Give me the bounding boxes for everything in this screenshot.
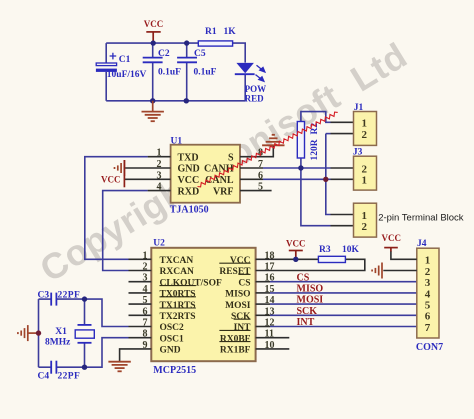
- junction CANH/120R: [298, 165, 303, 170]
- ground symbol U1 pin8 (inverted): [262, 135, 284, 146]
- svg-text:U1: U1: [171, 136, 183, 146]
- svg-text:MOSI: MOSI: [297, 295, 324, 306]
- capacitor C4: [51, 361, 56, 374]
- svg-text:22PF: 22PF: [58, 372, 81, 382]
- junction C5 bottom: [184, 98, 189, 103]
- svg-text:C5: C5: [194, 49, 206, 59]
- wire C1 top: [105, 43, 107, 63]
- U2 pin 12 stub: [256, 326, 270, 328]
- junction C3/X1: [82, 296, 87, 301]
- svg-text:R1: R1: [205, 27, 217, 37]
- wire C2 top stub: [152, 43, 154, 57]
- svg-text:SCK: SCK: [297, 306, 318, 317]
- svg-text:RESET: RESET: [219, 267, 251, 277]
- wire 120R top to J1 pin1: [301, 112, 331, 123]
- svg-text:10K: 10K: [342, 245, 360, 255]
- junction rail/ground: [36, 330, 41, 335]
- svg-text:U2: U2: [153, 238, 165, 248]
- svg-text:4: 4: [425, 288, 431, 300]
- svg-text:C4: C4: [38, 372, 50, 382]
- svg-text:R3: R3: [319, 245, 331, 255]
- svg-text:7: 7: [425, 322, 431, 334]
- svg-text:SCK: SCK: [231, 312, 251, 322]
- svg-text:6: 6: [425, 311, 431, 323]
- U2 pin 10 stub: [256, 348, 290, 350]
- U1 pin 6 stub: [240, 178, 263, 180]
- svg-text:2-pin Terminal Block: 2-pin Terminal Block: [378, 213, 464, 224]
- wire 120R bottom to CANH: [300, 158, 302, 168]
- U2 pin 9 stub to ground: [120, 349, 152, 362]
- svg-text:TXD: TXD: [178, 152, 199, 163]
- svg-text:3: 3: [425, 277, 431, 289]
- svg-text:GND: GND: [160, 346, 181, 356]
- resistor R2 120R (vertical): [297, 122, 304, 159]
- crystal X1: [75, 325, 94, 343]
- wire RXD to U2 RXCAN: [103, 191, 148, 271]
- ground symbol J4 pin2 (rotated): [372, 263, 382, 279]
- wire CANL down to J2 pin1: [326, 179, 331, 214]
- IC U2 MCP2515 body: [151, 248, 255, 361]
- U2 pin 3 stub: [129, 281, 152, 283]
- wire net INT: [270, 326, 417, 328]
- wire into J1 pin1: [331, 121, 354, 123]
- resistor R3: [318, 256, 345, 262]
- connector J3: [354, 156, 377, 190]
- U2 pin 15 stub: [256, 292, 270, 294]
- svg-text:RX0BF: RX0BF: [220, 334, 251, 344]
- wire TXD to U2 TXCAN: [85, 157, 148, 260]
- capacitor C3: [51, 293, 56, 306]
- svg-text:TX0RTS: TX0RTS: [160, 290, 196, 300]
- svg-text:TX2RTS: TX2RTS: [160, 312, 196, 322]
- U2 pin 5 stub: [129, 303, 152, 305]
- wire J1 pin2 branch: [326, 133, 331, 135]
- wire CANL to J3 pin1: [331, 178, 354, 180]
- svg-text:INT: INT: [234, 323, 252, 333]
- U2 pin 14 stub: [256, 303, 270, 305]
- wire X1 bottom to node: [84, 343, 86, 367]
- U2 pin 7 stub: [129, 326, 152, 328]
- wire net MOSI: [270, 303, 417, 305]
- svg-text:2: 2: [361, 221, 367, 233]
- svg-text:C2: C2: [158, 49, 170, 59]
- wire net SCK: [270, 314, 417, 316]
- U1 pin 7 stub: [240, 167, 263, 169]
- wire J4 pin1 to VCC: [391, 251, 417, 259]
- junction C2 bottom: [150, 98, 155, 103]
- U2 pin 11 stub: [256, 337, 290, 339]
- U2 pin 2 stub: [129, 270, 152, 272]
- svg-text:CS: CS: [238, 278, 250, 288]
- svg-text:RED: RED: [245, 93, 265, 103]
- svg-text:2: 2: [361, 129, 367, 141]
- wire C2 bottom stub: [152, 63, 154, 101]
- junction VCC/pin18: [293, 257, 298, 262]
- U1 pin 3 stub: [124, 178, 170, 180]
- connector J2: [354, 203, 377, 237]
- svg-text:VCC: VCC: [101, 174, 121, 184]
- svg-text:TX1RTS: TX1RTS: [160, 301, 196, 311]
- svg-text:VCC: VCC: [286, 239, 306, 249]
- U1 pin 1 stub: [148, 156, 171, 158]
- svg-text:RXCAN: RXCAN: [160, 267, 194, 277]
- U2 pin 8 stub: [129, 337, 152, 339]
- wire node to OSC1: [85, 338, 129, 368]
- ground symbol top center: [142, 112, 164, 122]
- svg-text:VCC: VCC: [178, 175, 200, 186]
- junction CANL: [323, 177, 328, 182]
- svg-text:1: 1: [361, 210, 367, 222]
- svg-text:VRF: VRF: [213, 186, 234, 197]
- wire R1 to LED: [233, 43, 246, 63]
- wire C3 right to node: [57, 298, 85, 300]
- svg-text:C3: C3: [38, 291, 50, 301]
- wire CANH: [263, 167, 331, 169]
- svg-text:10uF/16V: 10uF/16V: [107, 70, 147, 80]
- svg-text:GND: GND: [178, 164, 200, 175]
- svg-text:22PF: 22PF: [58, 291, 81, 301]
- svg-text:MOSI: MOSI: [225, 301, 251, 311]
- svg-text:0.1uF: 0.1uF: [158, 67, 181, 77]
- wire C5 bottom stub: [186, 63, 188, 101]
- wire top VCC rail: [106, 42, 198, 44]
- label R2 (rotated): [310, 123, 320, 135]
- wire node to OSC2: [85, 299, 129, 326]
- ground symbol U2 pin9: [108, 362, 130, 372]
- svg-text:VCC: VCC: [382, 233, 402, 243]
- wire pin18 to R3: [256, 258, 319, 260]
- svg-text:CS: CS: [297, 272, 310, 283]
- capacitor C2: [143, 58, 163, 63]
- capacitor C5: [177, 58, 197, 63]
- wire C1 bottom: [105, 72, 107, 101]
- wire R3 to RESET pin17: [256, 259, 365, 270]
- wire C4 right to node: [57, 366, 85, 368]
- svg-text:TJA1050: TJA1050: [170, 204, 209, 215]
- svg-text:2: 2: [361, 163, 367, 175]
- wire to C4 left: [39, 366, 52, 368]
- U2 pin 1 stub: [129, 258, 152, 260]
- wire left rail C3-C4: [38, 299, 40, 367]
- U2 pin 4 stub: [129, 292, 152, 294]
- wire J1 pin2 down to CANL: [325, 134, 327, 180]
- U2 pin 6 stub: [129, 314, 152, 316]
- svg-text:CON7: CON7: [416, 342, 443, 353]
- wire CANH down to J2 pin2: [301, 168, 331, 226]
- svg-text:1: 1: [425, 255, 431, 267]
- LED POW RED: [235, 63, 265, 81]
- svg-text:5: 5: [425, 300, 431, 312]
- svg-text:J3: J3: [353, 147, 363, 157]
- capacitor C1: [96, 53, 117, 72]
- svg-text:1: 1: [361, 118, 367, 130]
- svg-text:J4: J4: [417, 239, 427, 249]
- red marker zigzag line: [198, 112, 338, 187]
- watermark Copyright Tronisoft Ltd: [33, 34, 414, 289]
- wire to C3 left: [39, 298, 52, 300]
- svg-text:2: 2: [425, 266, 431, 278]
- junction C5 top: [184, 40, 189, 45]
- U1 pin 4 stub: [148, 190, 171, 192]
- wire rail to ground left: [28, 332, 39, 334]
- wire CANH to J3 pin2: [331, 167, 354, 169]
- svg-text:X1: X1: [55, 327, 67, 337]
- svg-text:120R: 120R: [310, 139, 320, 160]
- svg-text:CLKOUT/SOF: CLKOUT/SOF: [160, 278, 222, 288]
- U1 pin 2 stub: [124, 167, 170, 169]
- power VCC symbol J4 pin1: [384, 248, 398, 252]
- wire node to X1 top: [84, 299, 86, 325]
- U1 pin 5 stub VRF: [240, 190, 272, 192]
- wire ground rail: [106, 100, 245, 102]
- wire J4 pin2 to ground: [383, 270, 417, 272]
- wire CANL: [263, 178, 331, 180]
- U2 pin 13 stub: [256, 314, 270, 316]
- ground top center: [152, 101, 154, 112]
- svg-text:MISO: MISO: [297, 284, 324, 295]
- ground symbol X1 (rotated): [18, 325, 28, 341]
- power VCC U1 pin3 (bar left): [123, 160, 125, 187]
- svg-text:1K: 1K: [224, 27, 237, 37]
- svg-text:0.1uF: 0.1uF: [194, 67, 217, 77]
- svg-text:CANH: CANH: [204, 164, 234, 175]
- op-amp/IC U1 TJA1050 body: [171, 145, 240, 203]
- junction C4/X1: [82, 365, 87, 370]
- wire net CS: [270, 281, 417, 283]
- svg-text:J1: J1: [354, 103, 364, 113]
- junction VCC/C2: [151, 40, 156, 45]
- wire into J2 pin1: [331, 214, 354, 216]
- svg-text:1: 1: [361, 175, 367, 187]
- svg-text:INT: INT: [297, 317, 315, 328]
- svg-text:POW: POW: [245, 84, 267, 94]
- U1 pin 8 stub to ground: [240, 145, 273, 156]
- wire into J1 pin2: [331, 133, 354, 135]
- svg-text:OSC2: OSC2: [160, 323, 185, 333]
- U2 pin 16 stub: [256, 281, 270, 283]
- ground symbol U1 pin2 (rotated): [115, 160, 125, 176]
- resistor R1: [198, 41, 232, 46]
- wire into J2 pin2: [331, 225, 354, 227]
- svg-text:8MHz: 8MHz: [45, 338, 71, 348]
- svg-text:S: S: [228, 152, 234, 163]
- svg-text:MCP2515: MCP2515: [153, 365, 196, 376]
- svg-text:TXCAN: TXCAN: [160, 256, 194, 266]
- svg-text:C1: C1: [119, 55, 131, 65]
- power VCC top symbol: [146, 32, 160, 43]
- svg-text:RXD: RXD: [178, 186, 200, 197]
- svg-text:VCC: VCC: [230, 256, 251, 266]
- connector J4 CON7: [417, 248, 439, 338]
- svg-text:MISO: MISO: [225, 290, 250, 300]
- svg-text:OSC1: OSC1: [160, 334, 185, 344]
- svg-text:RX1BF: RX1BF: [220, 346, 251, 356]
- wire LED cathode to rail: [244, 75, 246, 101]
- value 120R (rotated): [310, 139, 320, 160]
- connector J1: [354, 112, 377, 146]
- power VCC symbol U2 pin18: [289, 251, 303, 260]
- wire C5 top stub: [186, 43, 188, 57]
- wire net MISO: [270, 292, 417, 294]
- svg-text:VCC: VCC: [144, 19, 164, 29]
